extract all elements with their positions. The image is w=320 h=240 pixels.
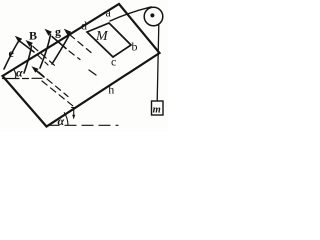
svg-text:m: m — [153, 104, 161, 115]
svg-text:h: h — [108, 83, 114, 97]
svg-text:M: M — [95, 29, 109, 44]
svg-text:B: B — [29, 29, 37, 43]
svg-text:c: c — [111, 55, 116, 69]
svg-text:a: a — [106, 6, 112, 20]
svg-text:d: d — [81, 19, 87, 33]
svg-text:g: g — [55, 25, 61, 39]
svg-text:α: α — [16, 66, 23, 80]
svg-text:α: α — [58, 114, 65, 128]
svg-text:b: b — [132, 40, 138, 54]
svg-text:e: e — [9, 46, 15, 60]
